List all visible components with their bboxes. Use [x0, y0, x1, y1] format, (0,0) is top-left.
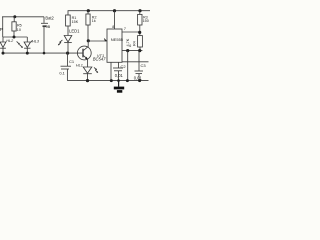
- capacitor C1: [67, 53, 69, 66]
- svg-text:9B: 9B: [46, 24, 51, 29]
- svg-text:LED1: LED1: [69, 28, 80, 33]
- node R4 C3 junction: [138, 49, 141, 52]
- svg-text:BC547: BC547: [93, 56, 106, 61]
- svg-text:P: P: [0, 27, 3, 32]
- capacitor C3: [138, 51, 140, 71]
- node rail R3 junction: [138, 9, 141, 12]
- arrowhead at U1 pin: [104, 38, 107, 41]
- svg-text:R5: R5: [17, 24, 22, 28]
- LED arrows between HL2 and HL3: [17, 41, 20, 44]
- svg-text:0,01: 0,01: [134, 75, 143, 80]
- wire U1 pin6 bus F: [122, 50, 142, 52]
- wire bottom rail: [67, 80, 148, 82]
- wire top-right rail: [68, 11, 150, 15]
- resistor R3: [139, 11, 141, 15]
- svg-text:Bat2: Bat2: [45, 15, 54, 20]
- node rail U1 junction: [113, 9, 116, 12]
- wire U1 pin2 line G: [122, 61, 149, 63]
- svg-text:150: 150: [143, 19, 149, 23]
- ground symbol below C2: [118, 81, 120, 87]
- LED LED1 arrows: [60, 40, 62, 42]
- svg-text:HL2: HL2: [6, 39, 14, 43]
- svg-text:10: 10: [17, 28, 21, 32]
- wire top-left rail: [2, 16, 44, 18]
- capacitor C2: [118, 62, 120, 68]
- wire left drop: [2, 17, 4, 37]
- wire bottom-left bus: [3, 52, 83, 54]
- resistor R5: [13, 17, 15, 22]
- LED HL2: [2, 37, 4, 42]
- svg-text:HL1: HL1: [76, 63, 83, 67]
- svg-text:C1: C1: [69, 59, 75, 64]
- node C2 bottom junction: [117, 79, 120, 82]
- svg-text:7: 7: [124, 27, 126, 31]
- wire F drop: [127, 51, 129, 81]
- battery Bat2: [43, 17, 45, 23]
- node R5 bottom junction: [13, 36, 16, 39]
- transistor VT1 collector: [83, 41, 88, 51]
- node F drop bottom junction: [126, 79, 129, 82]
- node C1 junction: [66, 52, 69, 55]
- svg-text:0,1: 0,1: [59, 70, 64, 75]
- node C3 bottom junction: [138, 79, 141, 82]
- LED HL3: [26, 37, 28, 42]
- svg-text:15K: 15K: [72, 20, 79, 24]
- LED HL1: [83, 67, 92, 73]
- LED LED1: [64, 36, 72, 43]
- svg-text:R4: R4: [132, 41, 136, 46]
- svg-text:C3: C3: [141, 63, 147, 68]
- node rail R5 junction: [13, 15, 16, 18]
- node R3 R4 junction: [138, 31, 141, 34]
- svg-text:0,01: 0,01: [115, 73, 124, 78]
- resistor R1: [66, 15, 71, 26]
- wire trigger line to U1: [88, 40, 107, 42]
- label HL3 leader: [31, 41, 33, 43]
- node HL2 bottom junction: [2, 52, 5, 55]
- svg-text:1k: 1k: [92, 19, 96, 23]
- svg-text:C2: C2: [121, 64, 127, 69]
- wire U1 Vcc: [114, 11, 116, 29]
- op-amp U1 NE555 box: [107, 29, 122, 62]
- svg-text:4,7K: 4,7K: [126, 38, 130, 46]
- node rail R2 junction: [87, 9, 90, 12]
- node F left junction: [126, 49, 129, 52]
- svg-text:HL3: HL3: [32, 40, 40, 44]
- wire U1 pin7 to R3R4: [122, 31, 140, 33]
- LED HL1 arrows: [94, 67, 96, 69]
- resistor R2: [87, 11, 89, 14]
- wire mid-left bus: [3, 36, 28, 38]
- node HL3 bottom junction: [26, 52, 29, 55]
- transistor VT1 base bar: [82, 49, 84, 58]
- transistor VT1 emitter: [83, 55, 87, 59]
- resistor R4: [138, 36, 143, 47]
- svg-text:NE555: NE555: [111, 37, 124, 42]
- transistor VT1 circle: [77, 46, 91, 60]
- svg-text:8: 8: [112, 25, 114, 29]
- node HL1 bottom junction: [86, 79, 89, 82]
- wire U1 gnd drop: [110, 62, 112, 80]
- node collector junction: [87, 39, 90, 42]
- node battery bottom junction: [43, 52, 46, 55]
- node gnd drop bottom junction: [110, 79, 113, 82]
